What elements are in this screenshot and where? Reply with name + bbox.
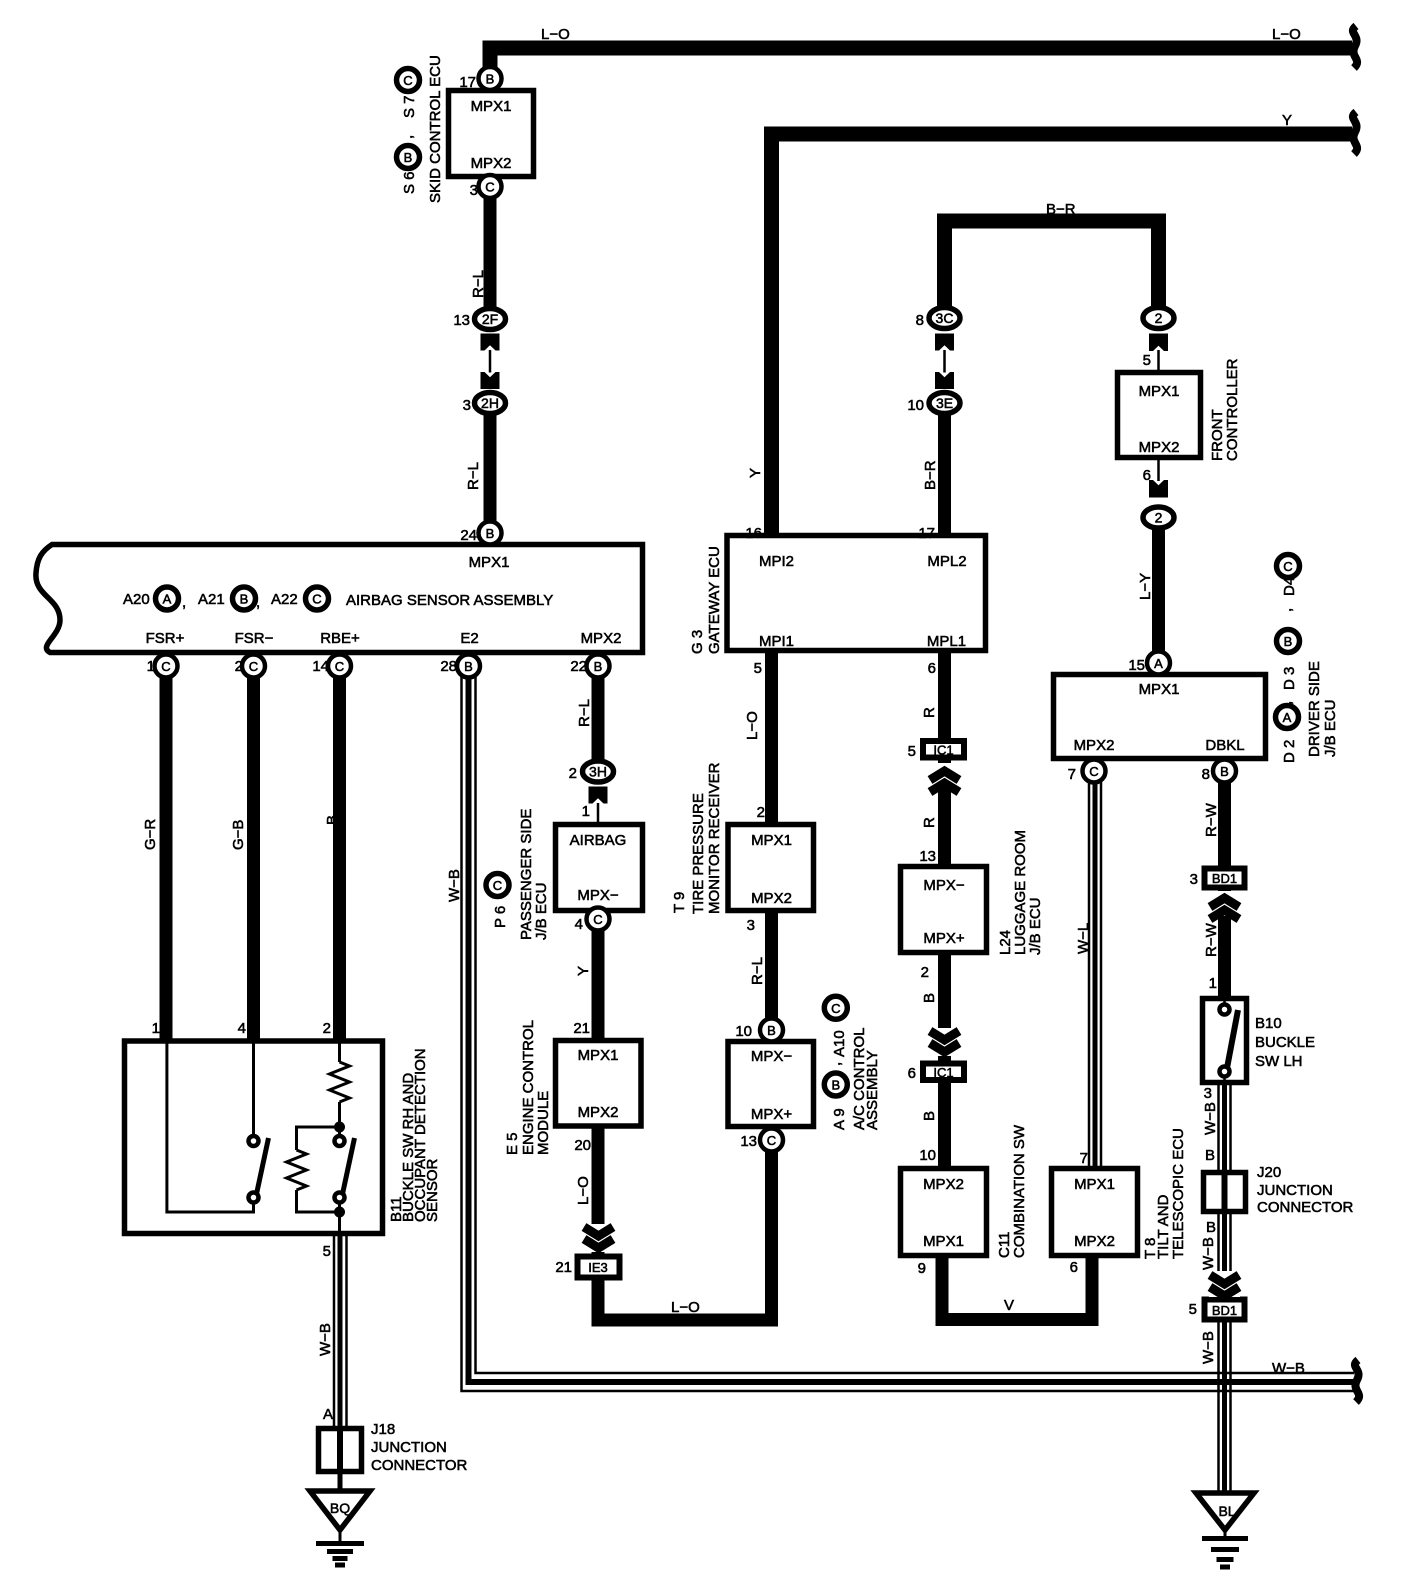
svg-text:4: 4 [238, 1020, 246, 1037]
connector BD1 no.2 (pin 5) [1205, 1300, 1245, 1320]
label L-O top right [1272, 26, 1301, 43]
svg-text:5: 5 [1189, 1301, 1197, 1318]
label pin 28 [440, 658, 457, 675]
svg-text:22: 22 [570, 658, 587, 675]
svg-text:3: 3 [470, 182, 478, 199]
reference circle A20 (A) [156, 587, 179, 610]
label pin 1 [147, 658, 155, 675]
svg-text:MPI1: MPI1 [759, 633, 794, 650]
label 1 B10 [1209, 975, 1217, 992]
svg-text:MPX2: MPX2 [1074, 1233, 1115, 1250]
label G-R [142, 819, 159, 850]
svg-text:MPI2: MPI2 [759, 553, 794, 570]
airbag sensor assembly box [36, 545, 643, 653]
svg-text:3E: 3E [936, 395, 953, 411]
svg-text:MPX+: MPX+ [923, 930, 965, 947]
svg-text:AIRBAG: AIRBAG [570, 832, 627, 849]
B10 buckle SW LH box [1203, 999, 1247, 1083]
svg-text:C: C [1283, 559, 1292, 574]
J20 junction connector [1204, 1172, 1246, 1212]
reference circle A22 (C) [306, 587, 329, 610]
pin 13 C (A/C) [760, 1129, 783, 1152]
svg-text:5: 5 [754, 660, 762, 677]
label A10 [831, 1030, 848, 1057]
label J18 junction connector [371, 1421, 468, 1474]
label 6 front [1143, 467, 1151, 484]
label 6 IC1 no.2 [908, 1065, 916, 1082]
pin 17 B (skid) [479, 67, 502, 90]
svg-text:E2: E2 [460, 630, 478, 647]
connector oval 3H [583, 761, 614, 782]
svg-text:BD1: BD1 [1212, 871, 1237, 886]
svg-text:20: 20 [574, 1137, 591, 1154]
wire B (L24 to IC1 no.2) [938, 953, 951, 1062]
B11 internal wire resistor1 to junction [338, 1102, 341, 1136]
svg-text:JUNCTION: JUNCTION [1257, 1182, 1333, 1199]
svg-text:G−B: G−B [230, 820, 247, 850]
svg-text:9: 9 [918, 1260, 926, 1277]
label S6 [401, 171, 418, 194]
label 3 (2H) [463, 397, 471, 414]
label A9 [831, 1108, 848, 1130]
B11 internal wire pin1 to switch1 [167, 1043, 254, 1212]
label comma S6-S7 [399, 135, 416, 139]
arrow down above 3E [935, 372, 954, 389]
svg-text:BD1: BD1 [1212, 1303, 1237, 1318]
svg-text:W−B: W−B [446, 869, 463, 902]
wire B-R (3C to front controller) [945, 221, 1159, 310]
connector oval 3E [929, 393, 960, 414]
svg-text:A20: A20 [123, 591, 150, 608]
svg-text:3: 3 [1204, 1085, 1212, 1102]
svg-text:5: 5 [323, 1243, 331, 1260]
svg-text:MPX1: MPX1 [751, 832, 792, 849]
wire W-B shielded (BD1 no.2 to ground BL) [1219, 1321, 1231, 1495]
pin 10 B (A/C) [760, 1019, 783, 1042]
svg-text:J18: J18 [371, 1421, 395, 1438]
label A/C control assembly [851, 1027, 881, 1130]
wire R-L (skid control to 2F) [484, 184, 497, 312]
svg-text:J/B ECU: J/B ECU [1322, 699, 1339, 757]
connector IC1 (pin 5) [923, 741, 964, 758]
label W-B B11-J18 [317, 1323, 334, 1356]
pin 14 C [328, 655, 351, 678]
svg-text:AIRBAG SENSOR ASSEMBLY: AIRBAG SENSOR ASSEMBLY [346, 592, 553, 609]
wire W-B shielded (pin 28 E2, down and right to break) [462, 668, 1355, 1391]
label comma D3-D4 [1278, 608, 1295, 612]
svg-text:TELESCOPIC ECU: TELESCOPIC ECU [1170, 1128, 1187, 1259]
svg-text:D4: D4 [1281, 577, 1298, 596]
label R-L T9-A/C [749, 957, 766, 985]
svg-text:MPL1: MPL1 [927, 633, 966, 650]
wire J18 to ground BQ [338, 1472, 343, 1495]
arrow up below 2F [481, 334, 500, 351]
svg-text:CONNECTOR: CONNECTOR [1257, 1199, 1354, 1216]
label G-B [230, 820, 247, 850]
svg-text:W−B: W−B [1200, 1331, 1217, 1364]
svg-text:B: B [486, 526, 495, 541]
chevron arrow down above IE3 [583, 1224, 614, 1252]
driver side J/B ECU box D2/D3/D4 [1054, 675, 1266, 759]
svg-text:A 9: A 9 [831, 1108, 848, 1130]
svg-text:B10: B10 [1255, 1015, 1282, 1032]
label pin 22 [570, 658, 587, 675]
svg-text:R−L: R−L [470, 270, 487, 298]
label Y wire gateway [747, 468, 764, 478]
reference circle S6 B [397, 146, 420, 169]
svg-text:7: 7 [1068, 766, 1076, 783]
svg-text:FSR+: FSR+ [146, 630, 185, 647]
svg-text:C: C [1089, 764, 1098, 779]
label R-L 2H-24 [465, 462, 482, 490]
B11 switch 2 [335, 1136, 355, 1203]
svg-text:A10: A10 [831, 1030, 848, 1057]
svg-text:6: 6 [1143, 467, 1151, 484]
pin 22 B [587, 655, 610, 678]
label 21 IE3 [555, 1259, 572, 1276]
reference circle D2 A [1276, 706, 1299, 729]
svg-text:MPL2: MPL2 [927, 553, 966, 570]
B11 internal wire switch2 to pin 5 [338, 1202, 341, 1236]
svg-text:,: , [1278, 608, 1295, 612]
svg-text:2: 2 [235, 658, 243, 675]
label 8 (3C) [916, 312, 924, 329]
label B-R wire 3E-17 [922, 460, 939, 490]
svg-text:8: 8 [916, 312, 924, 329]
svg-text:G 3: G 3 [689, 630, 706, 654]
svg-text:JUNCTION: JUNCTION [371, 1439, 447, 1456]
arrow up below oval 2 [1149, 334, 1168, 352]
svg-text:W−L: W−L [1075, 923, 1092, 954]
ground BQ [310, 1491, 370, 1565]
svg-text:2: 2 [1155, 310, 1163, 326]
svg-text:8: 8 [1202, 766, 1210, 783]
svg-text:C: C [493, 878, 502, 893]
B11 resistor 1 [330, 1062, 350, 1102]
svg-text:MPX1: MPX1 [578, 1047, 619, 1064]
L24 luggage room J/B ECU box [901, 867, 987, 953]
label 10 A/C [735, 1023, 752, 1040]
label V wire [1004, 1297, 1014, 1314]
svg-text:GATEWAY ECU: GATEWAY ECU [706, 546, 723, 654]
svg-text:6: 6 [928, 660, 936, 677]
svg-text:B: B [486, 72, 495, 87]
wire B (IC1 no.2 to C11) [938, 1081, 951, 1168]
svg-text:MPX−: MPX− [751, 1048, 793, 1065]
svg-text:A: A [163, 592, 172, 607]
svg-text:15: 15 [1128, 657, 1145, 674]
label L24 luggage room J/B ECU [997, 830, 1044, 955]
break squiggle L-O right end [1353, 26, 1357, 68]
svg-text:A21: A21 [198, 591, 225, 608]
svg-text:21: 21 [573, 1020, 590, 1037]
arrow down above oval 2 lower [1149, 480, 1168, 498]
svg-text:IC1: IC1 [933, 1065, 953, 1080]
label 2 L24 [921, 964, 929, 981]
svg-text:D 2: D 2 [1281, 740, 1298, 763]
svg-text:2: 2 [1155, 510, 1163, 526]
svg-text:MODULE: MODULE [535, 1091, 552, 1155]
B11 internal wire junction to resistor 2 [297, 1127, 340, 1150]
svg-text:21: 21 [555, 1259, 572, 1276]
label P6 [492, 906, 509, 928]
wire B (pin 14 to B11) [333, 668, 346, 1041]
label L-O E5-IE3 [575, 1176, 592, 1205]
label comma A9-A10 [827, 1062, 844, 1066]
C11 combination SW box [901, 1169, 987, 1256]
svg-text:R: R [921, 817, 938, 828]
svg-text:10: 10 [907, 397, 924, 414]
svg-text:MPX2: MPX2 [1139, 439, 1180, 456]
label Y wire airbag-E5 [575, 966, 592, 976]
svg-text:MPX−: MPX− [577, 887, 619, 904]
label 5 front [1143, 352, 1151, 369]
svg-text:A: A [1154, 656, 1163, 671]
svg-text:B: B [1220, 764, 1229, 779]
svg-text:5: 5 [908, 743, 916, 760]
B11 junction dot upper [334, 1122, 345, 1133]
svg-text:W−B: W−B [1202, 1102, 1219, 1135]
svg-text:B: B [324, 815, 341, 825]
svg-text:A: A [1283, 710, 1292, 725]
label R-W BD1-B10 [1203, 922, 1220, 957]
svg-text:3: 3 [463, 397, 471, 414]
svg-text:L−O: L−O [744, 711, 761, 740]
label 20 E5 [574, 1137, 591, 1154]
wire front controller pin 6 to oval 2 [1157, 458, 1160, 481]
svg-text:A: A [323, 1406, 333, 1423]
svg-text:14: 14 [312, 658, 329, 675]
label 13 (2F) [453, 312, 470, 329]
wire W-L shielded (driver side pin 7 to T8) [1089, 775, 1101, 1168]
svg-text:SKID CONTROL ECU: SKID CONTROL ECU [427, 55, 444, 203]
wire front controller pin 5 to oval 2 [1157, 350, 1160, 373]
svg-text:17: 17 [918, 525, 935, 542]
connector oval 2H [475, 393, 506, 414]
svg-text:2: 2 [921, 964, 929, 981]
label B L24-IC1 [921, 993, 938, 1003]
B11 resistor 2 [287, 1150, 307, 1190]
svg-text:DBKL: DBKL [1205, 737, 1244, 754]
label 3 T9 [747, 917, 755, 934]
E5 engine control module box [556, 1041, 642, 1127]
svg-text:C: C [335, 659, 344, 674]
label R-L 22-3H [576, 699, 593, 727]
svg-text:SENSOR: SENSOR [424, 1158, 441, 1222]
svg-text:DRIVER SIDE: DRIVER SIDE [1306, 661, 1323, 757]
label comma D2-D3 [1278, 701, 1295, 705]
front controller box [1118, 373, 1201, 458]
svg-text:IE3: IE3 [588, 1260, 608, 1275]
label B11 pin 1 [152, 1020, 160, 1037]
wire R (gateway MPL1 to IC1) [938, 650, 951, 740]
gateway ECU box G3 [727, 536, 986, 651]
label pin 17 [459, 74, 476, 91]
svg-text:17: 17 [459, 74, 476, 91]
reference circle A10 C [824, 996, 847, 1019]
wire W-B shielded (B10 pin 3 to J20) [1219, 1083, 1231, 1172]
svg-text:C: C [312, 592, 321, 607]
B11 buckle SW RH and occupant detection sensor box [125, 1041, 383, 1234]
label D4 [1281, 577, 1298, 596]
svg-text:L−Y: L−Y [1137, 573, 1154, 600]
label 6 MPL1 [928, 660, 936, 677]
svg-text:D 3: D 3 [1281, 667, 1298, 690]
pin 28 B [457, 655, 480, 678]
svg-text:C: C [831, 1001, 840, 1016]
svg-text:2H: 2H [481, 395, 499, 411]
svg-text:B: B [767, 1023, 776, 1038]
svg-text:6: 6 [908, 1065, 916, 1082]
pin 8 B (driver side) [1213, 760, 1236, 783]
arrow up below 3H [589, 787, 608, 804]
label pin 24 [460, 527, 477, 544]
wire L-O (E5 to IE3) [592, 1126, 605, 1254]
label 21 E5 [573, 1020, 590, 1037]
wire G-R (pin 1 to B11) [160, 668, 173, 1041]
svg-text:MPX2: MPX2 [471, 155, 512, 172]
svg-text:3H: 3H [589, 764, 607, 780]
wire R-W (driver side pin 8 to BD1) [1218, 775, 1231, 868]
chevron arrow up below IC1 [929, 763, 960, 792]
svg-text:MPX1: MPX1 [1074, 1176, 1115, 1193]
svg-text:R−L: R−L [465, 462, 482, 490]
B11 internal wire resistor2 to bottom junction [297, 1190, 340, 1212]
label S7 [401, 95, 418, 118]
svg-text:L−O: L−O [541, 26, 570, 43]
svg-text:FSR−: FSR− [235, 630, 274, 647]
wire R-L (2H to airbag sensor assembly) [484, 412, 497, 540]
label 7 T8 [1080, 1150, 1088, 1167]
svg-text:B−R: B−R [1046, 201, 1076, 218]
svg-text:B: B [464, 659, 473, 674]
break squiggle Y right end [1353, 112, 1357, 154]
label front controller [1209, 358, 1241, 461]
label 5 B11 pin [323, 1243, 331, 1260]
svg-text:MONITOR RECEIVER: MONITOR RECEIVER [706, 762, 723, 914]
label L-O top left [541, 26, 570, 43]
svg-text:COMBINATION SW: COMBINATION SW [1011, 1124, 1028, 1258]
label T9 tire pressure monitor receiver [671, 762, 723, 914]
svg-text:IC1: IC1 [933, 743, 953, 758]
label W-B B10-J20 [1202, 1102, 1219, 1135]
svg-text:J/B ECU: J/B ECU [533, 882, 550, 940]
svg-text:B: B [1284, 634, 1293, 649]
wire V (C11 MPX1 to T8 MPX2) [942, 1256, 1092, 1320]
svg-text:MPX1: MPX1 [1139, 383, 1180, 400]
wire L-O (main bus, top) [490, 48, 1352, 85]
label G3 gateway ECU [689, 546, 723, 654]
svg-text:C: C [485, 180, 494, 195]
svg-text:T 9: T 9 [671, 892, 688, 913]
reference circle D3 B [1277, 630, 1300, 653]
svg-text:MPX1: MPX1 [1139, 681, 1180, 698]
svg-text:B−R: B−R [922, 460, 939, 490]
svg-text:R−L: R−L [576, 699, 593, 727]
svg-text:V: V [1004, 1297, 1014, 1314]
label R IC1-13 [921, 817, 938, 828]
connector oval 2F [475, 309, 506, 330]
svg-text:2F: 2F [482, 311, 498, 327]
ground BL [1196, 1493, 1254, 1567]
label pin 4 airbag [575, 916, 583, 933]
skid control ECU box S6/S7 [449, 91, 534, 177]
svg-text:R: R [921, 707, 938, 718]
svg-text:S 7: S 7 [401, 95, 418, 118]
svg-text:B: B [921, 993, 938, 1003]
wire 3C-3E interconnect [943, 350, 946, 373]
svg-text:13: 13 [740, 1133, 757, 1150]
wire 3H to airbag pin 1 [597, 803, 600, 824]
label A J18 [323, 1406, 333, 1423]
label B J20 top [1205, 1147, 1215, 1164]
svg-text:J/B ECU: J/B ECU [1027, 897, 1044, 955]
svg-text:CONNECTOR: CONNECTOR [371, 1457, 468, 1474]
svg-text:BUCKLE: BUCKLE [1255, 1034, 1315, 1051]
connector IC1 no.2 (pin 6) [923, 1064, 964, 1081]
svg-text:Y: Y [747, 468, 764, 478]
svg-text:10: 10 [919, 1147, 936, 1164]
label T8 tilt and telescopic ECU [1142, 1128, 1187, 1259]
label R-L skid-2F [470, 270, 487, 298]
connector BD1 (pin 3) [1205, 869, 1245, 888]
label W-B bottom right [1272, 1360, 1305, 1377]
svg-text:2: 2 [569, 765, 577, 782]
svg-text:SW LH: SW LH [1255, 1053, 1303, 1070]
svg-text:3: 3 [747, 917, 755, 934]
label E5 engine control module [504, 1020, 552, 1155]
wire Y (airbag MPX- to E5) [592, 920, 605, 1040]
label pin 3 skid [470, 182, 478, 199]
svg-text:3: 3 [1190, 871, 1198, 888]
label R MPL1-IC1 [921, 707, 938, 718]
wire 2F-2H interconnect [489, 350, 492, 373]
label J20 junction connector [1257, 1164, 1354, 1216]
svg-text:C: C [249, 659, 258, 674]
svg-text:B: B [404, 150, 413, 165]
svg-text:B: B [921, 1111, 938, 1121]
label W-B BD1-ground [1200, 1331, 1217, 1364]
label 9 C11 [918, 1260, 926, 1277]
wire G-B (pin 2 to B11) [247, 668, 260, 1041]
svg-text:C: C [403, 73, 412, 88]
label 5 MPI1 [754, 660, 762, 677]
svg-text:MPX2: MPX2 [1074, 737, 1115, 754]
svg-text:C: C [593, 912, 602, 927]
label 6 T8 [1070, 1259, 1078, 1276]
svg-text:,: , [827, 1062, 844, 1066]
svg-text:,: , [399, 135, 416, 139]
svg-text:W−B: W−B [1200, 1237, 1217, 1270]
label W-B pin28 [446, 869, 463, 902]
svg-text:L−O: L−O [1272, 26, 1301, 43]
reference circle P6 C [486, 874, 509, 897]
B11 internal wire pin4 to switch1 top [252, 1043, 255, 1135]
wire R-L (pin 22 to 3H) [592, 668, 605, 765]
pin 24 B (airbag sensor) [479, 522, 502, 545]
label 16 gateway [745, 525, 762, 542]
svg-text:W−B: W−B [317, 1323, 334, 1356]
svg-text:2: 2 [323, 1020, 331, 1037]
svg-text:5: 5 [1143, 352, 1151, 369]
wire W-B shielded (B11 pin 5 to J18) [334, 1236, 347, 1428]
svg-text:C: C [767, 1133, 776, 1148]
svg-text:13: 13 [453, 312, 470, 329]
label 3 B10 pin [1204, 1085, 1212, 1102]
svg-text:MPX2: MPX2 [751, 890, 792, 907]
chevron arrow down above BD1 no.2 [1209, 1271, 1240, 1297]
svg-text:1: 1 [582, 803, 590, 820]
